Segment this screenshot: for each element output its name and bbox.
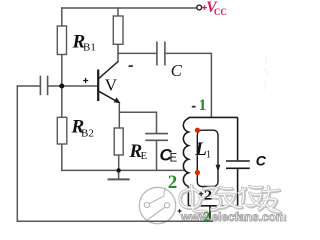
svg-text:1: 1 [199,97,207,114]
svg-text:B2: B2 [81,128,94,140]
svg-text:B1: B1 [83,42,96,54]
svg-text:L: L [194,139,207,160]
svg-text:2: 2 [168,172,178,193]
svg-text:2: 2 [204,188,212,203]
svg-text:C: C [256,153,267,169]
svg-text:C: C [171,61,183,80]
svg-text:E: E [170,153,178,165]
svg-text:CC: CC [214,7,227,17]
svg-text:2: 2 [204,209,211,224]
svg-text:E: E [141,150,148,162]
svg-text:V: V [105,76,118,95]
svg-text:1: 1 [206,150,211,161]
svg-text:www.elecfans.com: www.elecfans.com [180,210,287,224]
